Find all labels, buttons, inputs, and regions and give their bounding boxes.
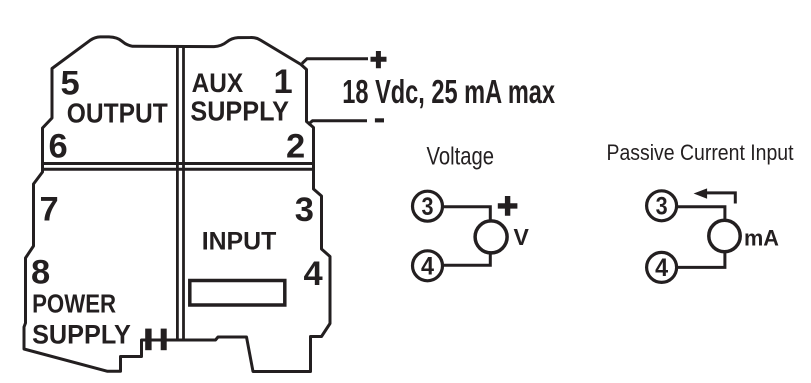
svg-text:6: 6 (49, 127, 68, 165)
svg-text:3: 3 (422, 193, 434, 221)
wire terminal 3 to voltage source (443, 207, 490, 221)
module body outline (24, 37, 330, 372)
vertical partition line left (176, 47, 179, 340)
capacitor plate 2 (power supply filter) (161, 329, 167, 351)
terminal circle 3 (current) (647, 191, 677, 221)
voltage source V1 (475, 221, 507, 253)
wire aux supply + (302, 59, 368, 64)
svg-text:4: 4 (304, 255, 323, 293)
wire terminal 4 to current device (677, 252, 725, 268)
terminal circle 4 (voltage) (413, 251, 443, 281)
current direction arrow (704, 193, 735, 204)
svg-text:POWER: POWER (32, 291, 116, 319)
svg-text:SUPPLY: SUPPLY (32, 320, 131, 350)
terminal circle 4 (current) (647, 252, 677, 282)
svg-text:INPUT: INPUT (202, 228, 277, 256)
minus sign (aux supply) (375, 118, 384, 122)
svg-text:AUX: AUX (192, 68, 244, 98)
svg-text:4: 4 (421, 253, 434, 281)
horizontal partition line bottom (43, 168, 314, 171)
plus sign (voltage source) (498, 196, 518, 216)
capacitor plate 1 (power supply filter) (145, 329, 151, 351)
svg-text:Voltage: Voltage (427, 142, 495, 170)
svg-text:V: V (514, 224, 530, 250)
svg-text:3: 3 (656, 193, 668, 221)
svg-text:18 Vdc, 25 mA max: 18 Vdc, 25 mA max (342, 73, 555, 110)
svg-text:4: 4 (655, 254, 668, 282)
svg-text:SUPPLY: SUPPLY (190, 95, 289, 126)
svg-text:2: 2 (286, 128, 305, 166)
current device (mA meter) (709, 220, 740, 251)
horizontal partition line top (43, 162, 314, 165)
vertical partition line right (182, 47, 185, 340)
terminal circle 3 (voltage) (413, 191, 443, 221)
wire aux supply - (308, 121, 367, 125)
svg-text:8: 8 (31, 254, 50, 292)
svg-text:OUTPUT: OUTPUT (67, 98, 168, 129)
svg-text:Passive Current Input: Passive Current Input (607, 140, 794, 165)
input range jumper slot (190, 281, 285, 306)
svg-text:mA: mA (744, 225, 779, 250)
wire terminal 4 to voltage source (443, 253, 490, 265)
wire terminal 3 to current device (677, 207, 725, 221)
plus sign (aux supply) (371, 51, 387, 68)
svg-text:7: 7 (40, 190, 59, 228)
arrowhead (694, 188, 708, 198)
svg-text:3: 3 (295, 191, 314, 229)
